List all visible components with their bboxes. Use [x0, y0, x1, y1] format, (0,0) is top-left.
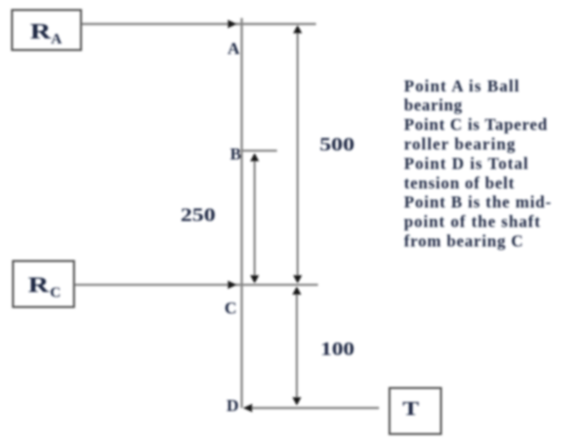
- svg-text:point of the shaft: point of the shaft: [404, 212, 541, 231]
- svg-text:Point B is the mid-: Point B is the mid-: [404, 193, 551, 212]
- svg-text:Point A is Ball: Point A is Ball: [404, 76, 519, 95]
- svg-text:R: R: [30, 19, 52, 44]
- svg-text:bearing: bearing: [404, 96, 463, 115]
- svg-text:from bearing C: from bearing C: [404, 232, 523, 251]
- svg-text:B: B: [230, 145, 241, 164]
- svg-text:roller bearing: roller bearing: [404, 135, 516, 154]
- svg-text:C: C: [225, 299, 237, 318]
- svg-text:100: 100: [321, 339, 355, 360]
- svg-text:D: D: [227, 396, 239, 415]
- svg-text:250: 250: [181, 205, 216, 226]
- svg-text:tension of belt: tension of belt: [404, 173, 515, 192]
- svg-text:C: C: [50, 285, 61, 301]
- svg-text:T: T: [403, 398, 420, 420]
- svg-text:500: 500: [320, 135, 355, 156]
- svg-text:Point D is Total: Point D is Total: [404, 154, 528, 173]
- svg-text:A: A: [228, 39, 241, 58]
- svg-text:A: A: [51, 32, 62, 48]
- svg-text:Point C is Tapered: Point C is Tapered: [404, 115, 547, 134]
- svg-text:R: R: [28, 272, 50, 297]
